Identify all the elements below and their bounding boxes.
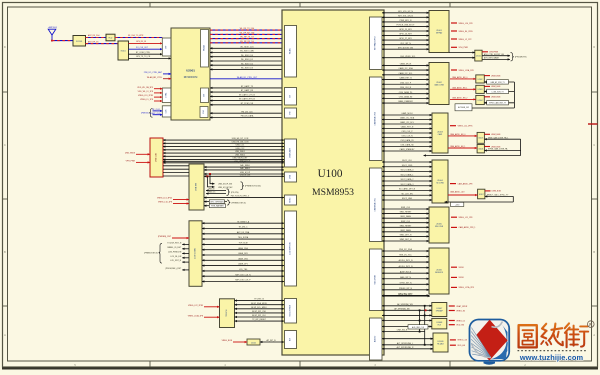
netlabel AUDIO_REF bbox=[408, 325, 428, 329]
port U100 MISC bbox=[285, 195, 297, 205]
wire AF_SPKR_MX bbox=[382, 307, 432, 310]
svg-text:BLSP_SCL_MISO: BLSP_SCL_MISO bbox=[251, 307, 267, 309]
svg-text:CSI0_CLK_P: CSI0_CLK_P bbox=[400, 82, 412, 84]
wire USB_OTG_ID bbox=[163, 161, 284, 163]
wire MAG_INT_N bbox=[382, 276, 429, 279]
wire AP_INT_N bbox=[260, 339, 284, 342]
wire SPKR_DRV_M bbox=[382, 314, 432, 316]
svg-text:GYRO_INT_N: GYRO_INT_N bbox=[399, 282, 412, 284]
wire WL_SDIO_CMD bbox=[210, 51, 284, 53]
svg-text:SIM2_DATA: SIM2_DATA bbox=[400, 229, 411, 232]
connector J2102 bbox=[189, 164, 204, 210]
esd-filter U1106 bbox=[477, 145, 484, 153]
wire GPIO_27_KEY bbox=[382, 38, 429, 40]
wire GPIO_26_KEY bbox=[382, 34, 429, 36]
port U2001 BT bbox=[201, 88, 209, 103]
wire USB_VBUS_DET bbox=[163, 158, 284, 160]
svg-text:SIM2_RESET: SIM2_RESET bbox=[400, 225, 413, 227]
wire WL_RF_RX_2G4 bbox=[210, 32, 284, 34]
wire USB_CC2 bbox=[163, 148, 284, 150]
svg-text:CAMERA CSI0: CAMERA CSI0 bbox=[374, 111, 377, 125]
wire USB_M_DM bbox=[204, 174, 284, 176]
svg-text:VDD8: VDD8 bbox=[459, 277, 464, 279]
wire USB_HS_DP_CON bbox=[163, 138, 284, 140]
svg-text:U1107: U1107 bbox=[479, 194, 484, 196]
wire m2 to U1104 bbox=[450, 97, 476, 100]
wire SNS_I2C_SCL bbox=[382, 255, 429, 257]
svg-text:USB/UART: USB/UART bbox=[289, 147, 292, 158]
watermark text tuzhijie bbox=[518, 321, 595, 362]
wire CAM0_RST_N bbox=[382, 77, 429, 80]
svg-text:PWR_KEY_N: PWR_KEY_N bbox=[400, 20, 412, 22]
wire ATH_CTRL_BOOST bbox=[482, 53, 510, 56]
wire CSI0_DATA_P0 bbox=[382, 91, 429, 94]
power CAM_AVDD_2P8_1 bbox=[451, 226, 475, 229]
svg-text:WL_SDIO_D2: WL_SDIO_D2 bbox=[241, 63, 253, 65]
wire TOUCH_RST_N bbox=[167, 243, 189, 245]
filter FL2002 bbox=[106, 34, 115, 41]
wire SIM2_DET_N bbox=[382, 239, 429, 241]
svg-text:TE_RESET_A: TE_RESET_A bbox=[237, 220, 250, 223]
svg-text:BLSP_SPI_CS0: BLSP_SPI_CS0 bbox=[252, 311, 266, 313]
power VREG_L13_3P05 bbox=[157, 198, 189, 200]
wire CSI0_CLK_N bbox=[382, 87, 429, 89]
svg-text:J1006: J1006 bbox=[436, 270, 442, 272]
svg-text:TP_RST_N: TP_RST_N bbox=[254, 299, 264, 301]
wire CAM1_RST_N bbox=[382, 126, 432, 129]
svg-text:ALSP_INT_N: ALSP_INT_N bbox=[400, 270, 412, 273]
power VREG_L5_1P8 bbox=[140, 99, 162, 101]
wire WL_RF_TX_5G bbox=[210, 37, 284, 39]
svg-text:CAM_AVDD_EN_0: CAM_AVDD_EN_0 bbox=[452, 76, 467, 79]
wire U100 to U1101 b bbox=[382, 56, 475, 58]
wire BT_UART_RX bbox=[210, 89, 284, 92]
wire GPIO_25_KEY bbox=[382, 29, 429, 31]
svg-text:SNS_I2C_SCL: SNS_I2C_SCL bbox=[399, 255, 412, 257]
svg-text:WL_SDIO_D3: WL_SDIO_D3 bbox=[241, 68, 253, 70]
connector U1008 bbox=[432, 318, 447, 329]
power VREG_BOB bbox=[222, 340, 247, 342]
power VREG_L17A_2P8 bbox=[451, 286, 474, 289]
wire LANE_DP0 bbox=[202, 252, 284, 255]
power VREG_L13 bbox=[450, 340, 467, 342]
wire SIM1_CLK bbox=[382, 207, 429, 209]
wire SIM1_DATA bbox=[382, 215, 429, 218]
wire SDC2_DATA_0 bbox=[382, 169, 432, 172]
svg-text:C: C bbox=[4, 144, 6, 147]
wire USB_OC stub bbox=[206, 192, 226, 194]
svg-text:C_SM_VDR_YY: C_SM_VDR_YY bbox=[491, 91, 504, 93]
svg-text:LCD_TE0: LCD_TE0 bbox=[239, 269, 247, 271]
svg-text:U1103: U1103 bbox=[478, 89, 483, 91]
svg-text:USIM_BGB: USIM_BGB bbox=[492, 191, 502, 193]
wire GPS_RF net bbox=[129, 41, 163, 43]
svg-text:KEY_VOL_UP_N: KEY_VOL_UP_N bbox=[398, 11, 413, 13]
wire m2 wrap bus bbox=[472, 82, 514, 108]
svg-text:USB_M_DM_MX: USB_M_DM_MX bbox=[218, 187, 233, 189]
power USB_VBUS bbox=[125, 152, 150, 154]
wire m4 wrap bus bbox=[445, 196, 514, 202]
svg-text:SDC2_DATA_0: SDC2_DATA_0 bbox=[401, 169, 414, 172]
wire KEY_VOL_DN_N bbox=[382, 15, 429, 17]
wire PWR_KEY_N bbox=[382, 20, 429, 22]
port U2001 RF-IN bbox=[162, 38, 171, 56]
wire BLSP_SDA_MOSI bbox=[235, 302, 285, 305]
connector J2103 bbox=[189, 221, 202, 286]
node PS CN brace bbox=[227, 189, 239, 196]
wire SPKM_CAM_ZONE_PA bbox=[484, 148, 520, 151]
svg-text:U2001: U2001 bbox=[186, 69, 195, 73]
svg-text:RF_2G4_TO_WTR: RF_2G4_TO_WTR bbox=[128, 35, 144, 37]
svg-text:27M_XO_CTRL_ANT: 27M_XO_CTRL_ANT bbox=[144, 71, 163, 74]
connector J1001 bbox=[429, 11, 449, 53]
svg-text:VREG_L11_1P8: VREG_L11_1P8 bbox=[459, 217, 473, 219]
svg-text:CAM_AVDD_EN_2: CAM_AVDD_EN_2 bbox=[452, 97, 467, 100]
power CHG_PWR stub bbox=[482, 52, 499, 54]
wire WL_SDIO_D2 bbox=[210, 63, 284, 65]
connector U1009 bbox=[433, 333, 448, 352]
svg-text:CSI1_DATA_N0: CSI1_DATA_N0 bbox=[400, 144, 413, 147]
svg-text:SIM1_DET_N: SIM1_DET_N bbox=[400, 235, 412, 237]
svg-text:LCD_RST_N: LCD_RST_N bbox=[170, 260, 182, 262]
svg-text:PRESS_INT_N: PRESS_INT_N bbox=[399, 288, 413, 290]
wire LCD_RST_N bbox=[170, 260, 189, 262]
wire SDC2_CLK bbox=[382, 160, 432, 162]
esd-filter U1101 bbox=[475, 50, 482, 61]
port U2001 WLAN-RF bbox=[201, 30, 209, 68]
port U100 BT bbox=[285, 88, 297, 106]
svg-text:WL_SDIO_CLK: WL_SDIO_CLK bbox=[240, 46, 254, 48]
wire GPS_TX net bbox=[129, 56, 172, 58]
svg-text:E2101: E2101 bbox=[121, 51, 126, 53]
wire XO_CTRL_ANT input bbox=[144, 71, 171, 74]
wire BLSP_SPI_CS0 bbox=[235, 311, 285, 313]
svg-text:CAM_AVDD_EN_0: CAM_AVDD_EN_0 bbox=[450, 133, 465, 136]
svg-text:CAM0_MCLK: CAM0_MCLK bbox=[400, 63, 412, 66]
filter FL2001 bbox=[73, 36, 86, 47]
svg-text:USB_M_DM: USB_M_DM bbox=[240, 174, 251, 176]
wire WLAN_BR_CTRL input bbox=[147, 76, 171, 79]
svg-text:MAG_INT_N: MAG_INT_N bbox=[400, 276, 411, 279]
svg-text:SDC2_DATA_3: SDC2_DATA_3 bbox=[401, 183, 414, 186]
watermark logo tuzhijie bbox=[469, 319, 511, 365]
svg-text:(PROM,DEL)_RST: (PROM,DEL)_RST bbox=[165, 268, 182, 270]
svg-text:CAM_AVDD_2P8: CAM_AVDD_2P8 bbox=[458, 182, 473, 185]
svg-text:GPS_RF_IN: GPS_RF_IN bbox=[136, 41, 147, 43]
svg-text:SPK_BOOST_EN: SPK_BOOST_EN bbox=[398, 47, 414, 49]
junction USB_M_DM tap bbox=[207, 175, 234, 189]
svg-text:SPKR_PH_OUT: SPKR_PH_OUT bbox=[398, 294, 413, 296]
capacitor C2101 bbox=[247, 339, 260, 345]
svg-text:BT_UART_CTS_N: BT_UART_CTS_N bbox=[239, 94, 255, 97]
svg-text:CAM_AVDD_EN_1: CAM_AVDD_EN_1 bbox=[452, 86, 467, 89]
wire WL_RF_RX_5G bbox=[210, 41, 284, 43]
antenna ANT2001 bbox=[48, 26, 58, 41]
wire WL_SDIO_CLK bbox=[210, 46, 284, 48]
wire MIPI_DSI_CLK_N bbox=[202, 274, 284, 276]
svg-text:VBAT_SPKR: VBAT_SPKR bbox=[456, 305, 468, 308]
svg-text:AF_SPKR(M)_MX: AF_SPKR(M)_MX bbox=[394, 307, 410, 310]
power VREG_L11_1P8 bbox=[451, 217, 472, 219]
ic U100 MSM8953 bbox=[282, 10, 384, 355]
wire EAR_OUT_P bbox=[382, 320, 432, 322]
wire RF_CLK pair with brace bbox=[141, 109, 162, 118]
svg-text:VREG_L19_2P85: VREG_L19_2P85 bbox=[138, 95, 153, 97]
svg-text:CAM_AT_VDR_YY: CAM_AT_VDR_YY bbox=[490, 81, 505, 84]
svg-text:ALT/BGB_SW: ALT/BGB_SW bbox=[458, 106, 469, 109]
svg-text:TVP_SCM: TVP_SCM bbox=[239, 243, 248, 245]
svg-text:AUDIO: AUDIO bbox=[374, 335, 377, 342]
svg-text:CAM0_I2C_SDA: CAM0_I2C_SDA bbox=[398, 67, 413, 70]
svg-text:VREG_L11A_1P8: VREG_L11A_1P8 bbox=[459, 69, 474, 72]
svg-text:MIPI_DSI_CLK_P: MIPI_DSI_CLK_P bbox=[235, 280, 251, 282]
svg-text:VPH_PWR: VPH_PWR bbox=[126, 161, 136, 163]
svg-text:TOUCH/SNS: TOUCH/SNS bbox=[290, 304, 292, 316]
svg-text:WLAN_BR_CTRL: WLAN_BR_CTRL bbox=[147, 76, 162, 79]
wire AF_SPKR_WS bbox=[382, 303, 432, 306]
wire AVC_DF_RSA bbox=[202, 231, 284, 234]
svg-text:SIM1_CLK: SIM1_CLK bbox=[401, 207, 411, 209]
svg-text:(PREBOOST,S): (PREBOOST,S) bbox=[232, 202, 246, 204]
wire SDC2_DATA_3 bbox=[382, 183, 432, 186]
wire DAL_SBD0 bbox=[204, 164, 284, 167]
svg-text:USIM_BGB: USIM_BGB bbox=[491, 75, 501, 77]
netlabel PWR_WARMER bbox=[204, 204, 226, 208]
wire SPK_BOOST_EN bbox=[382, 47, 429, 49]
power USIM_BGB 0 bbox=[484, 75, 501, 77]
power VREG_L19_2P85 bbox=[138, 95, 162, 97]
power VPH_PWR_USB bbox=[126, 161, 150, 163]
svg-text:GPS_TX_TO_CN: GPS_TX_TO_CN bbox=[136, 56, 151, 58]
wire TE_DSI_C bbox=[202, 227, 284, 229]
svg-text:VPH_PWR: VPH_PWR bbox=[459, 47, 469, 49]
svg-text:CSI0_DATA_N0: CSI0_DATA_N0 bbox=[399, 95, 412, 98]
wire LANE_DN1 bbox=[202, 257, 284, 260]
svg-text:ANT_RF_5G: ANT_RF_5G bbox=[88, 40, 99, 43]
wire m1 to U1101 a bbox=[449, 52, 475, 54]
node FROM-BOOST brace bbox=[144, 243, 162, 263]
svg-text:ACCEL_INT2_N: ACCEL_INT2_N bbox=[399, 265, 414, 268]
svg-text:BLSP_SPI_CLK: BLSP_SPI_CLK bbox=[252, 315, 266, 317]
svg-text:CLK: CLK bbox=[166, 109, 168, 114]
wire BT_UART_CTS_N bbox=[210, 94, 284, 97]
wire TP_RST_N bbox=[235, 299, 285, 301]
svg-text:USB_CC2: USB_CC2 bbox=[236, 148, 245, 150]
port U100 USB bbox=[285, 172, 297, 182]
wire TVP_SCM bbox=[202, 243, 284, 245]
svg-text:U100: U100 bbox=[318, 168, 343, 180]
wire LCD_TE0 bbox=[202, 269, 284, 271]
svg-text:USB SW: USB SW bbox=[196, 183, 198, 191]
svg-text:J1001: J1001 bbox=[436, 30, 442, 32]
wire SIM1_DET_N bbox=[382, 235, 429, 237]
svg-text:RF/WIFI/FM: RF/WIFI/FM bbox=[184, 76, 198, 79]
svg-text:SLEEP_CLK: SLEEP_CLK bbox=[150, 113, 161, 115]
netlabel ALT_BGB bbox=[455, 104, 472, 111]
svg-text:TOUCH_RST_N: TOUCH_RST_N bbox=[167, 243, 182, 245]
svg-text:VDD8: VDD8 bbox=[459, 267, 464, 269]
svg-text:SPKR_CAM_VDR_YY: SPKR_CAM_VDR_YY bbox=[489, 102, 507, 105]
wire CAM0_MCLK bbox=[382, 63, 429, 66]
svg-text:KEYPAD/GPIO: KEYPAD/GPIO bbox=[374, 36, 377, 50]
svg-text:KEY_VOL_DN_N: KEY_VOL_DN_N bbox=[398, 15, 413, 17]
svg-text:FL02: FL02 bbox=[109, 38, 113, 40]
wire USB_M_DP bbox=[204, 172, 284, 174]
svg-text:USB_SBU2: USB_SBU2 bbox=[235, 154, 245, 156]
svg-text:CSI1_DATA_P0: CSI1_DATA_P0 bbox=[400, 139, 413, 142]
svg-text:U1007: U1007 bbox=[436, 308, 443, 310]
svg-text:CTRL: CTRL bbox=[166, 92, 168, 98]
port U100 USB/UART bbox=[285, 139, 297, 167]
svg-text:WL_SDIO_CMD: WL_SDIO_CMD bbox=[240, 51, 255, 53]
svg-text:XO_CLK_OUT: XO_CLK_OUT bbox=[136, 47, 149, 49]
svg-text:SDC2/SIM: SDC2/SIM bbox=[375, 275, 377, 285]
svg-text:AUD_REF_CLK: AUD_REF_CLK bbox=[412, 326, 425, 329]
wire ALT_SPKR_LINE2 bbox=[382, 346, 433, 349]
wire PROM_RST bbox=[165, 268, 189, 270]
power VREG_L2_1P2 bbox=[451, 39, 471, 41]
wire PM_TOUCH_GPIO bbox=[204, 196, 284, 198]
svg-text:BT_UART_TX: BT_UART_TX bbox=[241, 85, 254, 88]
svg-text:VREG_L10_1P8: VREG_L10_1P8 bbox=[158, 202, 172, 204]
power VDD8 bbox=[451, 277, 464, 279]
port U2001 CTRL bbox=[162, 88, 171, 103]
connector J1006 bbox=[429, 248, 449, 294]
svg-text:SIM CONN: SIM CONN bbox=[435, 226, 444, 228]
svg-text:MIPI_DSI_CLK_N: MIPI_DSI_CLK_N bbox=[235, 274, 251, 276]
wire USB_SBU1 bbox=[163, 151, 284, 153]
power VDD_WL_IO_1P8 bbox=[138, 91, 163, 93]
port U2001 FM bbox=[200, 107, 208, 118]
svg-text:USB_SBU1: USB_SBU1 bbox=[235, 151, 245, 153]
svg-text:(PS,CN): (PS,CN) bbox=[231, 192, 239, 194]
svg-text:DAL_SBD0: DAL_SBD0 bbox=[240, 164, 250, 167]
svg-text:CHG_WLED_SCL: CHG_WLED_SCL bbox=[400, 56, 415, 58]
wire FM_I2S_CLK bbox=[210, 111, 284, 113]
svg-text:USB_M_DP_MX: USB_M_DP_MX bbox=[218, 184, 233, 186]
netlabel +5V0 bbox=[451, 202, 464, 206]
esd-filter U1102 bbox=[476, 75, 485, 83]
svg-text:ANT_RF_2G4: ANT_RF_2G4 bbox=[88, 34, 99, 37]
svg-text:USB_HS_DP_CON: USB_HS_DP_CON bbox=[232, 138, 249, 140]
wire audio vertical bus2 bbox=[424, 306, 426, 345]
wire KEY_VOL_UP_N bbox=[382, 11, 429, 13]
node RF_MARK bbox=[588, 123, 598, 125]
svg-text:SPKM_CAM_ZONE_PA: SPKM_CAM_ZONE_PA bbox=[488, 148, 508, 151]
wire ATH_INTR_WAKE bbox=[482, 57, 510, 60]
power VDD8 bbox=[451, 267, 464, 269]
svg-text:CAM1_I2C_SDA: CAM1_I2C_SDA bbox=[400, 117, 415, 120]
esd-filter U1104 bbox=[476, 95, 485, 104]
svg-text:U1009: U1009 bbox=[438, 341, 445, 343]
wire LANE_DP1 bbox=[202, 263, 284, 266]
power USIM_BGB m4 bbox=[485, 191, 502, 193]
power VREG_S4_2P05 bbox=[451, 31, 473, 33]
wire CSI0_DATA_N0 bbox=[382, 95, 429, 98]
wire FM_I2S_DATA bbox=[210, 115, 284, 118]
wire SIM2_CLK bbox=[382, 221, 429, 223]
svg-text:AF_SPKR(M)_WS: AF_SPKR(M)_WS bbox=[397, 303, 413, 306]
ic U2104 bbox=[220, 299, 235, 328]
wire LINE_IN2_R bbox=[382, 330, 425, 332]
wire m3 wrap bus bbox=[424, 139, 521, 155]
svg-text:USB CON: USB CON bbox=[156, 152, 158, 162]
wire WL_RF_TX_2G4 bbox=[210, 28, 284, 30]
connector J1004 bbox=[432, 160, 448, 203]
svg-text:CDC_INT_N: CDC_INT_N bbox=[400, 43, 411, 45]
wire BT_UART_RTS_N bbox=[210, 98, 284, 101]
svg-text:MSM_CAM_ZONE_PA_1: MSM_CAM_ZONE_PA_1 bbox=[488, 136, 508, 139]
svg-text:BT_COEX_CTRL: BT_COEX_CTRL bbox=[136, 52, 150, 54]
wire BT_COEX net bbox=[129, 52, 163, 54]
wire PANEL_ID_DET bbox=[167, 246, 189, 249]
wire m3 to U1106 bbox=[448, 145, 477, 148]
svg-text:VDD_PA: VDD_PA bbox=[456, 324, 464, 327]
svg-text:VREG_L13: VREG_L13 bbox=[457, 340, 467, 342]
svg-text:BLSP_SDA_MOSI: BLSP_SDA_MOSI bbox=[251, 302, 267, 305]
wire m4 to U1107 bbox=[448, 190, 478, 195]
svg-text:VREG_L10A_1P8: VREG_L10A_1P8 bbox=[188, 314, 203, 317]
svg-text:USB: USB bbox=[290, 174, 292, 179]
svg-text:CSI0_DATA_P0: CSI0_DATA_P0 bbox=[399, 91, 412, 94]
svg-text:GPIO_26_KEY: GPIO_26_KEY bbox=[399, 34, 412, 36]
junction USB_M_DP tap bbox=[209, 173, 233, 186]
svg-text:TOUCH: TOUCH bbox=[226, 309, 228, 317]
svg-text:(PWREN)_RST: (PWREN)_RST bbox=[158, 236, 172, 238]
wire CAM0_STANDBY bbox=[382, 100, 429, 103]
svg-text:WL_RF_TX_5G: WL_RF_TX_5G bbox=[240, 37, 254, 39]
wire BLSP_SPI_CLK bbox=[235, 315, 285, 317]
wire EAR_OUT_M bbox=[382, 326, 432, 328]
svg-text:LCM_PWM_EN: LCM_PWM_EN bbox=[168, 252, 182, 254]
wire CSI1_DATA_P0 bbox=[382, 139, 432, 142]
svg-text:U1102: U1102 bbox=[478, 79, 483, 81]
svg-text:CAM_AVDD_2P8_1: CAM_AVDD_2P8_1 bbox=[459, 226, 476, 229]
power VREG_L10A_1P8 bbox=[188, 314, 220, 317]
wire SPKR_PHONE_OUT bbox=[382, 294, 430, 296]
wire CSI1_CLK_N bbox=[382, 136, 432, 138]
svg-text:LANE_DP1: LANE_DP1 bbox=[238, 263, 248, 266]
wire CAM1_STANDBY bbox=[382, 148, 432, 151]
svg-text:USIM_BGB: USIM_BGB bbox=[491, 134, 501, 136]
svg-text:CAM0_STANDBY: CAM0_STANDBY bbox=[398, 100, 414, 103]
wire USB_CC1 bbox=[163, 145, 284, 147]
port U100 INT bbox=[285, 331, 297, 349]
svg-text:REACT_CALC_SYNC_YY: REACT_CALC_SYNC_YY bbox=[487, 194, 509, 197]
connector J1003 bbox=[432, 113, 448, 153]
wire CAM1_I2C_SCL bbox=[382, 121, 432, 124]
port U2001 CLK bbox=[162, 106, 171, 117]
wire m2 to U1102 bbox=[450, 76, 476, 79]
power VREG_L22_2P85 bbox=[188, 305, 220, 307]
port U100 AUDIO bbox=[370, 318, 383, 360]
wire MIPI_DSI_CLK_P bbox=[202, 280, 284, 282]
svg-text:(PROMOTE): (PROMOTE) bbox=[515, 57, 527, 59]
wire WL_SDIO_D0 bbox=[210, 55, 284, 57]
svg-text:SDC2_GND: SDC2_GND bbox=[402, 198, 413, 200]
svg-text:SIM1_RESET: SIM1_RESET bbox=[400, 212, 413, 214]
svg-text:VREG_L22_2P85: VREG_L22_2P85 bbox=[188, 305, 203, 307]
power VPH_PWR bbox=[451, 47, 468, 49]
wire J2101 to J2102 pin2 bbox=[163, 168, 189, 170]
svg-text:AP_INT_N: AP_INT_N bbox=[266, 339, 276, 342]
netlabel DFLT_SPEED bbox=[204, 200, 246, 205]
svg-text:VREG_S4_2P05: VREG_S4_2P05 bbox=[459, 31, 473, 33]
power VDD_PA bbox=[449, 324, 465, 327]
wire J2101 to J2102 pin3 bbox=[163, 172, 189, 174]
wire ACCEL_INT1_N bbox=[382, 259, 429, 262]
wire WLAN_XO_CTRL_OUT bbox=[210, 76, 284, 79]
